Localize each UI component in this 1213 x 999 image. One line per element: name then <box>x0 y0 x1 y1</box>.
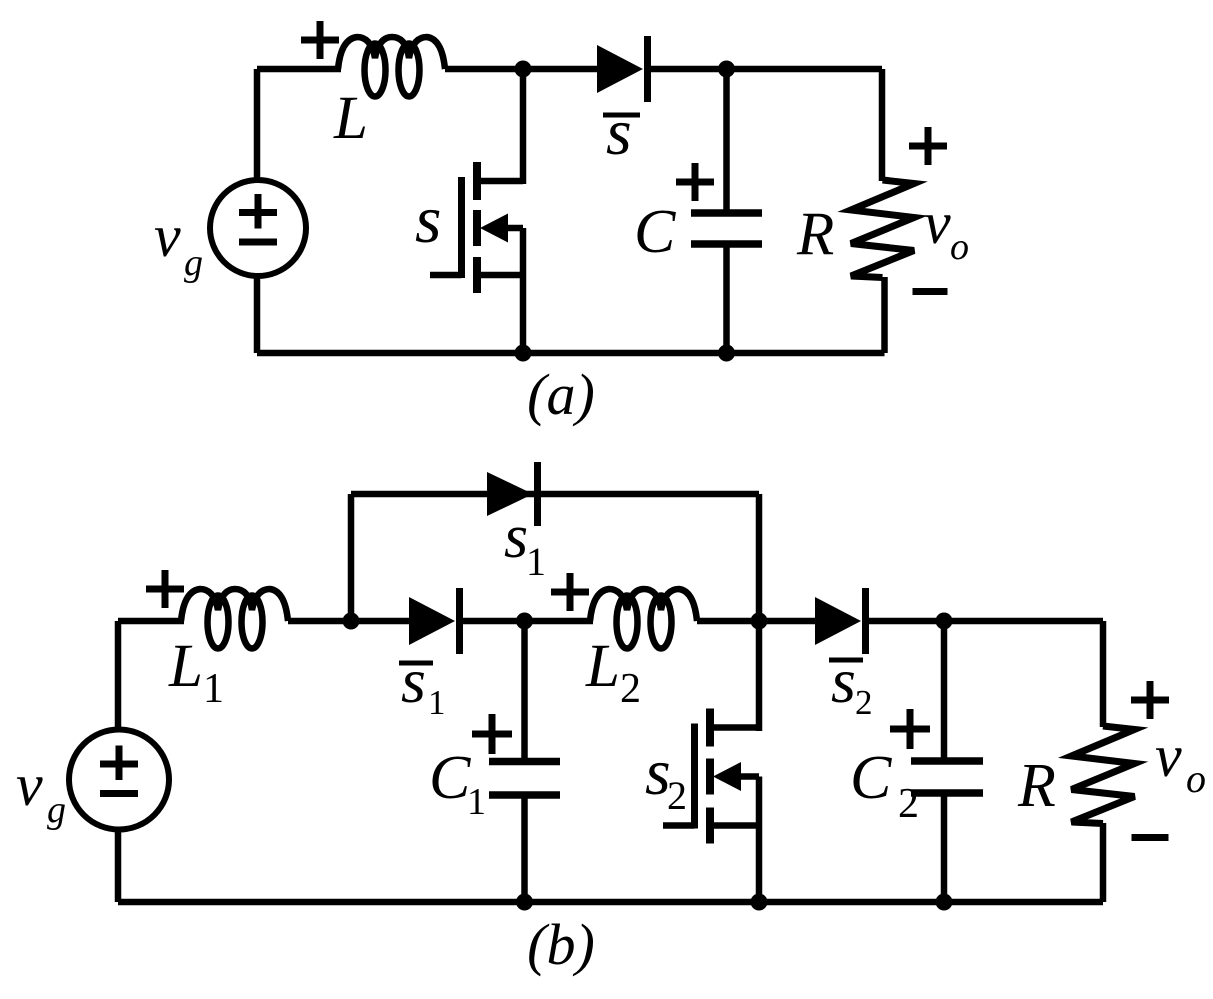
svg-text:1: 1 <box>467 781 486 823</box>
svg-text:L: L <box>585 633 620 700</box>
wire: MOSFET s2 source vertical to bottom rail <box>756 777 763 903</box>
wire: MOSFET source vertical to bottom rail (a) <box>520 228 527 353</box>
node: bottom junction at C2 <box>936 894 953 911</box>
svg-text:L: L <box>168 633 203 700</box>
label + polarity left of L2 <box>551 573 589 611</box>
label (b) <box>527 912 595 977</box>
label + polarity left of L1 <box>146 570 184 608</box>
svg-text:v: v <box>154 203 181 269</box>
label L1 <box>168 633 224 712</box>
capacitor C2 <box>911 761 983 793</box>
label - polarity of vo (a) <box>913 288 948 295</box>
wire: capacitor C2 bottom lead <box>941 792 948 902</box>
node: bottom junction at capacitor (a) <box>718 345 735 362</box>
node: bottom junction at MOSFET s2 <box>751 894 768 911</box>
svg-text:L: L <box>333 85 368 152</box>
wire: L1 to diode s1-bar anode <box>288 618 412 625</box>
svg-text:(a): (a) <box>527 362 595 427</box>
svg-text:2: 2 <box>855 683 873 722</box>
label C2 <box>850 744 919 827</box>
wire: source top lead (a) <box>254 69 261 183</box>
svg-text:R: R <box>796 201 834 268</box>
label C1 <box>429 744 486 823</box>
svg-text:C: C <box>850 744 892 812</box>
label s2 MOSFET <box>645 736 687 818</box>
svg-text:s: s <box>415 181 441 257</box>
label s1-bar <box>399 645 446 722</box>
capacitor C1 <box>489 762 560 796</box>
wire: right branch top vertical to resistor (a) <box>879 69 886 181</box>
wire: capacitor top lead (a) <box>723 69 730 214</box>
wire: vertical up to top rail left (b) <box>348 494 355 621</box>
wire: resistor to bottom rail (a) <box>881 277 888 353</box>
wire: top rail right vertical down (b) <box>756 494 763 621</box>
wire: diode cathode to output node (a) <box>645 66 882 73</box>
wire: bottom rail (b) <box>118 899 1103 906</box>
label C <box>634 198 676 266</box>
label s2-bar <box>829 645 873 722</box>
wire: source bottom lead (a) <box>254 276 261 353</box>
label + polarity of vo (a) <box>909 127 947 165</box>
capacitor C (a) <box>691 213 762 244</box>
svg-text:1: 1 <box>428 683 446 722</box>
label R (a) <box>796 201 834 268</box>
svg-text:s: s <box>401 645 426 716</box>
node: junction at capacitor C2 top <box>936 613 953 630</box>
label (a) <box>527 362 595 427</box>
svg-text:o: o <box>950 226 969 268</box>
label vg (b) <box>16 752 66 831</box>
wire: MOSFET drain vertical (a) <box>520 69 527 184</box>
transistor s MOSFET (a) <box>430 162 523 293</box>
label + polarity of C <box>676 163 714 201</box>
node: top junction at capacitor C (a) <box>718 61 735 78</box>
diode s1-bar <box>409 588 460 654</box>
label vo (a) <box>924 190 969 268</box>
resistor R (a) <box>851 180 914 278</box>
label vg (a) <box>154 203 203 284</box>
svg-text:s: s <box>831 645 856 716</box>
inductor L <box>338 37 445 97</box>
svg-text:2: 2 <box>898 781 919 827</box>
label + polarity of C2 <box>890 709 930 749</box>
wire: top-left horizontal, source to inductor (a) <box>257 66 341 73</box>
label L <box>333 85 368 152</box>
label + polarity left of L <box>301 21 339 59</box>
label - polarity of vo (b) <box>1132 834 1169 841</box>
wire: right branch top vertical to resistor (b) <box>1100 621 1107 727</box>
svg-text:s: s <box>606 96 632 169</box>
node: top junction at MOSFET drain (a) <box>515 61 532 78</box>
svg-text:s: s <box>504 503 528 571</box>
svg-text:v: v <box>924 190 951 256</box>
voltage source vg (a) <box>210 180 306 276</box>
wire: resistor to bottom rail (b) <box>1100 823 1107 902</box>
wire: top rail with diode s1 (b) <box>351 491 759 498</box>
wire: source top lead (b) <box>115 621 122 732</box>
svg-text:(b): (b) <box>527 912 595 977</box>
svg-text:1: 1 <box>203 666 224 712</box>
label s1 <box>504 503 546 584</box>
svg-text:v: v <box>1155 723 1182 789</box>
wire: bottom rail (a) <box>257 350 885 357</box>
wire: diode s1-bar cathode to L2 <box>457 618 593 625</box>
label + polarity of vo (b) <box>1131 681 1169 719</box>
wire: capacitor bottom lead (a) <box>723 243 730 353</box>
svg-text:2: 2 <box>620 666 641 712</box>
wire: L2 to junction at MOSFET s2 drain <box>697 618 818 625</box>
node: junction at MOSFET s2 drain <box>751 613 768 630</box>
svg-text:g: g <box>184 242 203 284</box>
wire: inductor to diode anode (a) top <box>445 66 600 73</box>
label + polarity of C1 <box>472 714 512 754</box>
svg-text:C: C <box>429 744 471 812</box>
label R (b) <box>1017 752 1056 820</box>
wire: top-left horizontal to inductor L1 <box>118 618 184 625</box>
resistor R (b) <box>1072 726 1135 824</box>
label L2 <box>585 633 641 712</box>
svg-text:1: 1 <box>526 539 546 584</box>
node: junction at capacitor C1 top <box>516 613 533 630</box>
voltage source vg (b) <box>69 730 169 830</box>
diode s2-bar <box>815 588 866 654</box>
diode s1 <box>487 462 538 526</box>
wire: capacitor C2 top lead <box>941 621 948 762</box>
inductor L1 <box>181 589 288 649</box>
svg-text:R: R <box>1017 752 1056 820</box>
label s MOSFET (a) <box>415 181 441 257</box>
svg-text:g: g <box>47 789 66 831</box>
node: bottom junction at MOSFET (a) <box>515 345 532 362</box>
node: junction at L1 output <box>343 613 360 630</box>
wire: source bottom lead (b) <box>115 829 122 902</box>
label vo (b) <box>1155 723 1206 801</box>
svg-text:2: 2 <box>667 773 687 818</box>
wire: capacitor C1 bottom lead <box>521 794 528 902</box>
transistor s2 MOSFET <box>663 709 759 844</box>
svg-text:v: v <box>16 752 43 818</box>
node: bottom junction at C1 <box>516 894 533 911</box>
diode s-bar (a) <box>597 36 648 102</box>
wire: MOSFET s2 drain vertical <box>756 621 763 731</box>
wire: diode s2-bar cathode to output node (b) <box>863 618 1103 625</box>
svg-text:o: o <box>1186 756 1206 801</box>
inductor L2 <box>590 589 697 649</box>
label s-bar (a) <box>603 96 640 169</box>
svg-text:C: C <box>634 198 676 266</box>
wire: capacitor C1 top lead <box>521 621 528 762</box>
